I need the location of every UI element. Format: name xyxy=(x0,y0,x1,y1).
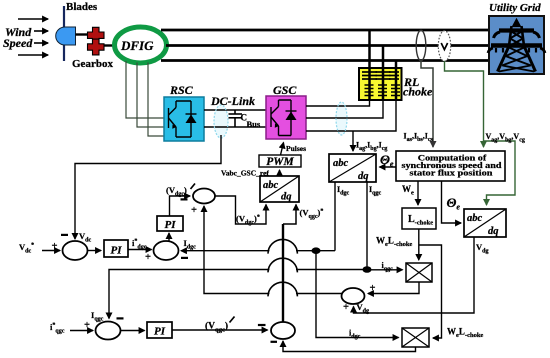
svg-text:PI: PI xyxy=(154,326,166,338)
svg-text:DC-Link: DC-Link xyxy=(210,94,255,108)
svg-text:dq: dq xyxy=(281,192,292,203)
svg-text:+: + xyxy=(52,241,58,252)
svg-text:+: + xyxy=(84,320,90,331)
svg-text:stator flux position: stator flux position xyxy=(410,169,493,178)
svg-text:+: + xyxy=(191,205,197,216)
svg-text:abc: abc xyxy=(333,158,349,169)
svg-text:choke: choke xyxy=(403,85,433,99)
svg-text:PI: PI xyxy=(165,219,177,231)
svg-text:Gearbox: Gearbox xyxy=(72,58,113,70)
svg-text:RSC: RSC xyxy=(169,83,194,97)
svg-text:+: + xyxy=(343,302,349,313)
svg-text:Utility Grid: Utility Grid xyxy=(489,2,541,14)
svg-text:dq: dq xyxy=(358,171,369,182)
svg-text:abc: abc xyxy=(467,213,483,224)
svg-text:PI: PI xyxy=(111,245,123,257)
svg-text:+: + xyxy=(370,283,376,294)
svg-text:Vabc_GSC_ref: Vabc_GSC_ref xyxy=(221,169,269,178)
svg-text:dq: dq xyxy=(488,226,499,237)
svg-text:Pulses: Pulses xyxy=(286,144,306,153)
svg-text:GSC: GSC xyxy=(273,83,297,97)
svg-text:PWM: PWM xyxy=(266,156,294,168)
svg-text:Speed: Speed xyxy=(3,36,33,50)
svg-text:DFIG: DFIG xyxy=(120,38,154,53)
svg-text:+: + xyxy=(145,252,151,263)
svg-text:Blades: Blades xyxy=(66,1,98,13)
svg-text:Bus: Bus xyxy=(247,119,261,129)
svg-text:abc: abc xyxy=(263,180,279,191)
